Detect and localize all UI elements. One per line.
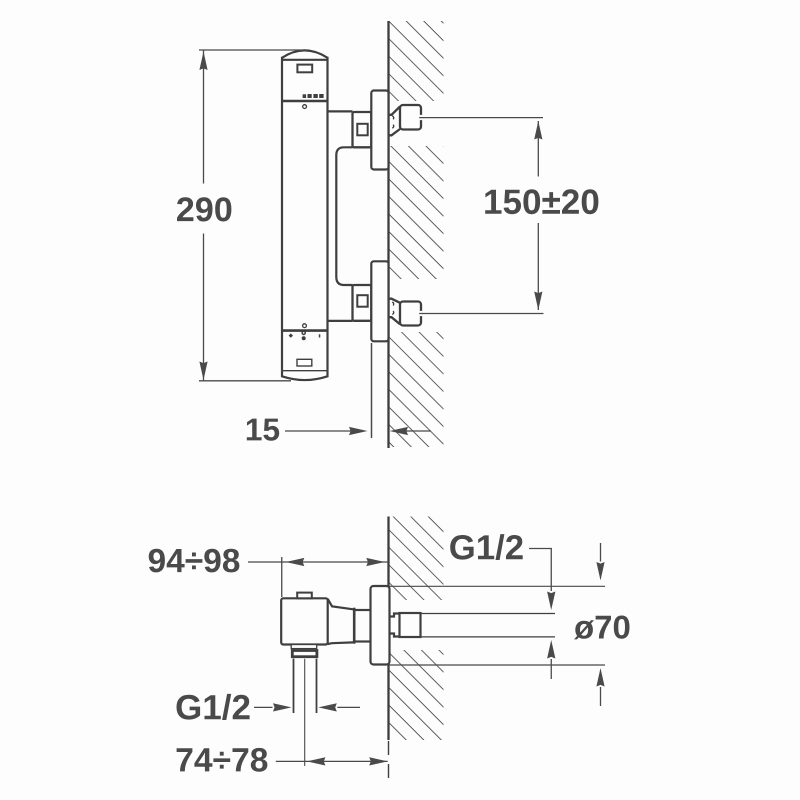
G1/2 upper label and leader [450,534,523,560]
dimension text 94÷98 [149,549,240,573]
display window [297,65,312,73]
upper connector block [353,112,372,147]
dimension text 150±20 [485,189,598,214]
dimension text 290 [177,197,231,221]
dimension 15 [285,343,431,438]
dimension 150±20 [419,115,543,316]
supply pipe lines behind wall [421,613,556,615]
rear spine [336,147,352,285]
lower eccentric union fitting [389,299,422,326]
pipe fitting behind wall (bottom view) [389,613,421,637]
wall hatch band lower (top view) [390,332,444,447]
rear bottom edge connecting body to lower block [328,320,353,322]
G1/2 lower label [177,694,250,720]
panel divider line lower [282,329,328,332]
upper wall flange [371,91,388,170]
wall hatch band lower (bottom view) [390,650,444,740]
wall hatch band middle (top view) [390,146,444,279]
valve body block (bottom view) [281,598,328,644]
panel divider line upper [282,100,328,102]
flange top extension line [390,585,606,587]
outlet pipe lines [293,659,295,713]
outlet pipe centerline [304,659,306,766]
flange bottom extension line [390,664,606,666]
wall face dashed extension [388,741,390,783]
tapered neck to wall [328,599,371,644]
dimension 74÷78 [276,757,388,765]
small icons row [289,331,321,340]
wall line (top view) [387,21,389,448]
dimension text Ø70 [574,616,630,640]
wall hatch band upper (bottom view) [390,517,444,601]
label plate rectangle [297,359,312,366]
wall hatch band upper (top view) [390,21,444,101]
screw upper [303,105,307,109]
lower connector inner square [357,295,367,307]
cartridge knob on top [297,593,312,599]
dimension 94÷98 [248,557,389,597]
lower connector block [353,285,372,321]
wall line (bottom view) [387,517,389,741]
lower fitting thread marks [392,302,393,315]
lower wall flange [371,261,388,341]
screw lower [303,324,307,328]
wall flange (bottom view) [371,586,390,665]
upper connector inner square [357,124,367,136]
dimension Ø70 arrows [596,543,604,706]
dimension 290 [199,50,309,381]
G1/2 lower dimension arrows [254,703,360,711]
upper eccentric union fitting [389,105,422,135]
faucet body outline (top view) [282,50,328,380]
rear top edge connecting body to upper block [328,110,353,112]
dimension text 15 [247,419,279,441]
buttons row [303,94,324,98]
bottom outlet rings [291,645,317,649]
upper fitting thread marks [392,116,393,128]
dimension text 74÷78 [177,748,268,772]
